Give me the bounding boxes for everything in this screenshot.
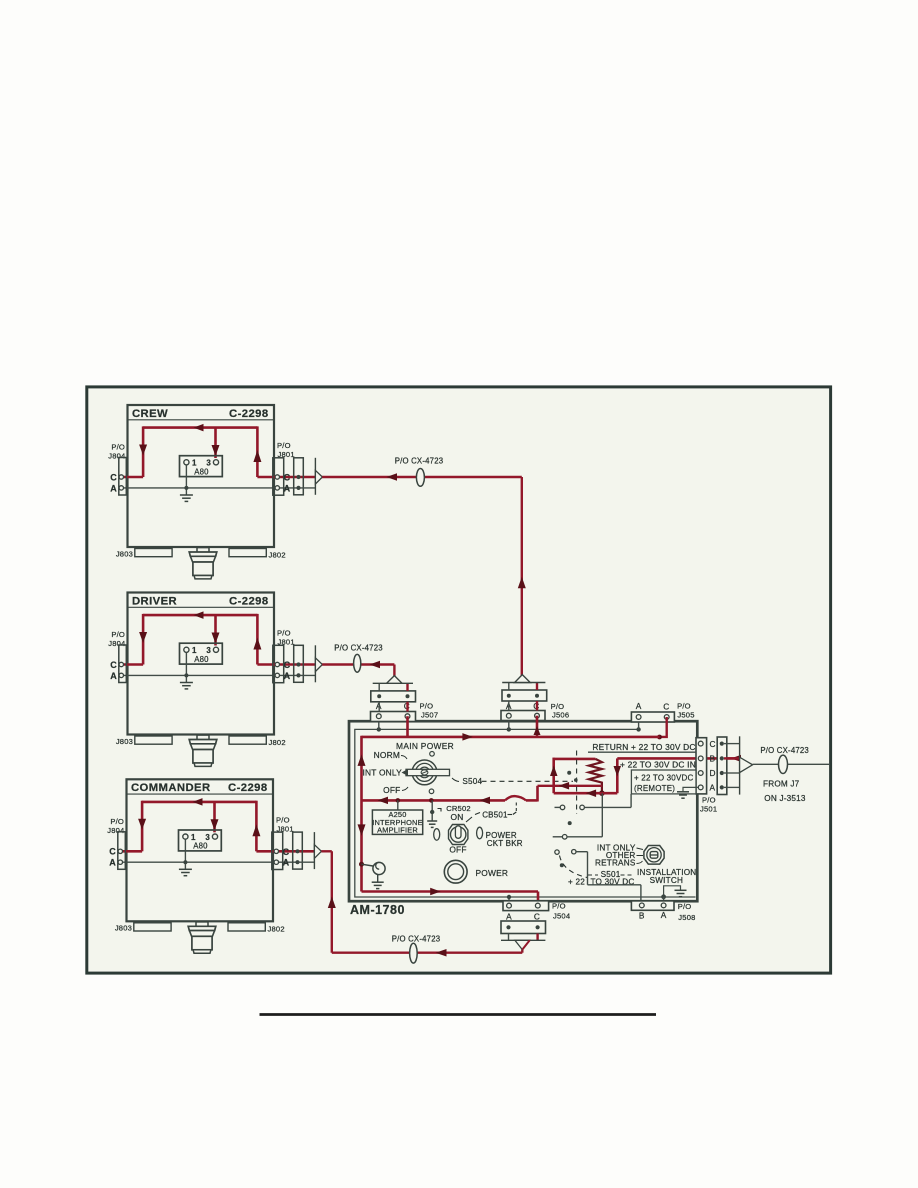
svg-text:J507: J507 — [421, 711, 438, 720]
REMOTE label box — [631, 770, 696, 794]
svg-text:A: A — [284, 483, 291, 493]
svg-text:A: A — [109, 858, 116, 868]
arrow bottom cable leftward — [436, 949, 447, 957]
ground symbol under stub — [427, 821, 437, 827]
connector P/O J504 — [503, 901, 549, 911]
svg-text:OFF: OFF — [449, 844, 466, 854]
junction J505 A end of inner border — [636, 727, 640, 731]
svg-text:J504: J504 — [553, 912, 570, 921]
svg-text:P/O: P/O — [276, 816, 290, 825]
label A at J804 CREW — [110, 483, 117, 493]
arrow CREW left drop down — [139, 445, 147, 456]
wire red riser to relay bottom line — [536, 786, 539, 802]
arrow red top bus rightward — [462, 733, 473, 741]
wire to grommet — [362, 864, 374, 866]
relay coil left leg red — [552, 758, 555, 794]
mating pin A below J504 — [506, 925, 510, 929]
cable triangle below J504 — [515, 940, 530, 949]
svg-text:A: A — [636, 701, 642, 711]
label INT ONLY — [363, 768, 403, 778]
terminal A of J801 COMMANDER — [274, 860, 278, 864]
label C at J801 CREW — [284, 473, 291, 483]
svg-text:A: A — [110, 483, 117, 493]
control box DRIVER C-2298 outline — [128, 593, 275, 735]
contact row 2 — [553, 835, 603, 840]
arrow COMMANDER top run leftward — [193, 798, 203, 806]
cable triangle above J506 — [515, 675, 531, 683]
mounting hole right of CB501 — [477, 827, 483, 839]
wire red mid run left segment — [362, 799, 506, 802]
svg-text:J803: J803 — [116, 549, 133, 558]
wire stub C lower J507 red — [406, 702, 408, 712]
mating pin B J501 — [720, 756, 724, 760]
label A at J505 — [636, 701, 642, 711]
foot J803 of DRIVER — [135, 736, 172, 744]
terminal A of J801 CREW — [275, 486, 279, 490]
arrow CREW cable drop upward — [518, 577, 526, 589]
label P/O J801 of CREW — [277, 441, 295, 459]
mating connector at J801 CREW — [294, 458, 304, 495]
dashed link S504 to relay — [482, 780, 574, 782]
hook mark beside stub — [438, 809, 442, 812]
label A250 — [388, 810, 406, 819]
arrow COMMANDER riser upward — [328, 897, 336, 909]
label C at J804 DRIVER — [110, 660, 117, 670]
wire from J7 external — [753, 763, 829, 765]
red side of J504 triangle — [522, 940, 529, 949]
pin 3 of A80 in COMMANDER — [212, 834, 217, 839]
cable bar below J504 — [501, 939, 545, 941]
arrow DRIVER left drop down — [139, 632, 147, 643]
POWER indicator lamp — [444, 860, 467, 883]
arrow relay B line leftward — [586, 790, 597, 798]
wire stub A lower J506 — [508, 701, 510, 711]
svg-text:CB501: CB501 — [482, 810, 508, 819]
svg-text:+ 22: + 22 — [568, 877, 585, 886]
wire red drop to J504 C — [537, 892, 540, 906]
arrow red bottom run rightward — [430, 888, 441, 895]
junction inner border at J504 A — [507, 895, 511, 899]
svg-text:MAIN POWER: MAIN POWER — [396, 741, 454, 751]
label ON J-3513 — [764, 794, 806, 803]
A80 label in DRIVER — [194, 655, 209, 664]
wire COMMANDER A line — [120, 861, 297, 863]
wire CREW red left drop — [142, 426, 145, 477]
wire J506 A stub to inner border — [508, 721, 510, 730]
audio plug under COMMANDER — [188, 922, 216, 953]
svg-text:C: C — [109, 847, 116, 857]
arrow COMMANDER right riser up — [252, 824, 260, 836]
arrow J506 C stub upward — [534, 726, 541, 735]
junction COMMANDER ground on A line — [183, 860, 187, 864]
arrow DRIVER top run leftward — [194, 611, 204, 619]
svg-text:P/O CX-4723: P/O CX-4723 — [760, 746, 809, 755]
label A at J506 — [506, 701, 512, 711]
connector P/O J505 — [631, 712, 674, 722]
S501 wiper dot — [560, 863, 564, 867]
A80 label in COMMANDER — [193, 842, 208, 851]
pin 1 of A80 in COMMANDER — [183, 834, 188, 839]
label POWER — [476, 868, 509, 878]
label P/O J508 — [678, 902, 696, 922]
fan wire C to bar — [724, 743, 740, 745]
wire COMMANDER C line left — [120, 850, 142, 853]
pin 1 label in CREW — [192, 459, 197, 468]
DRIVER title text — [132, 595, 177, 607]
ground symbol bottom left — [372, 882, 384, 888]
arrow COMMANDER left drop down — [138, 819, 146, 830]
cable bar at J501 — [739, 736, 741, 794]
svg-text:+ 22 TO 30VDC: + 22 TO 30VDC — [634, 774, 693, 783]
svg-text:P/O: P/O — [277, 441, 291, 450]
COMMANDER model number C-2298 — [228, 782, 267, 794]
label P/O J504 — [552, 902, 570, 921]
label ON — [451, 812, 464, 822]
svg-text:P/O: P/O — [678, 902, 692, 911]
terminal A of J506 — [506, 713, 511, 718]
label CR502 — [446, 804, 471, 813]
diagram frame border — [87, 387, 831, 973]
arrow red mid run leftward 1 — [378, 797, 389, 805]
AM-1780 inner border — [355, 729, 696, 897]
svg-text:A: A — [661, 910, 667, 920]
wire CREW C line left — [121, 476, 143, 479]
svg-text:RETRANS: RETRANS — [595, 859, 636, 868]
terminal A of J804 DRIVER — [119, 673, 123, 677]
wire junction drop to contact row 2 — [601, 793, 603, 837]
relay coil winding — [589, 759, 602, 793]
dot inside relay — [567, 771, 571, 775]
ground symbol at J501 A — [677, 792, 689, 798]
junction CR502 ground stub on red run — [429, 798, 434, 803]
svg-text:C-2298: C-2298 — [228, 782, 267, 794]
connector J804 of COMMANDER — [118, 832, 126, 870]
label FROM J7 — [763, 780, 800, 789]
cable bar above J507 — [373, 682, 413, 684]
component A80 terminal box in COMMANDER — [179, 830, 222, 851]
wire J508 A stub — [663, 897, 665, 906]
svg-text:AMPLIFIER: AMPLIFIER — [377, 826, 418, 835]
wire red top bus — [362, 736, 660, 739]
underline RETURN label — [588, 751, 696, 753]
cable bar at DRIVER J801 — [314, 645, 316, 682]
mounting hole left of CB501 — [434, 829, 440, 841]
svg-text:ON J-3513: ON J-3513 — [764, 794, 806, 803]
pin 1 label in COMMANDER — [191, 833, 196, 842]
arrow red left vertical upward — [358, 754, 366, 766]
wire CREW A line — [121, 487, 298, 489]
label C at J501 — [710, 739, 716, 749]
label P/O CX-4723 DRIVER cable — [334, 644, 383, 653]
terminal D of J501 — [698, 771, 703, 776]
mating pin C COMMANDER — [295, 849, 299, 853]
svg-text:RETURN + 22 TO 30V DC: RETURN + 22 TO 30V DC — [592, 742, 695, 752]
label B at J508 — [639, 910, 645, 920]
svg-text:P/O: P/O — [552, 902, 566, 911]
svg-text:P/O: P/O — [110, 817, 124, 826]
wire +22V to J508 B — [588, 885, 641, 906]
svg-text:C: C — [534, 911, 540, 921]
arrow +22V riser downward — [614, 766, 622, 777]
svg-text:J804: J804 — [108, 452, 125, 461]
terminal A of J505 — [636, 715, 641, 720]
svg-text:P/O CX-4723: P/O CX-4723 — [392, 934, 441, 943]
label AMPLIFIER — [377, 826, 418, 835]
S504 position dot OFF — [429, 789, 434, 794]
svg-text:NORM: NORM — [374, 750, 400, 760]
wire red bottom run — [362, 890, 539, 893]
pin 3 of A80 in DRIVER — [213, 647, 218, 652]
mating pin A COMMANDER — [295, 860, 299, 864]
svg-text:B: B — [639, 910, 645, 920]
terminal B of J508 — [639, 903, 644, 908]
audio plug under CREW — [189, 548, 217, 579]
svg-text:A: A — [284, 671, 291, 681]
mating pin A above J507 — [377, 694, 381, 698]
label C at J801 DRIVER — [284, 660, 291, 670]
terminal C of J804 DRIVER — [119, 662, 123, 666]
cable bar above J506 — [502, 682, 545, 684]
mating pin C DRIVER — [296, 662, 300, 666]
arrow DRIVER right riser up — [253, 638, 261, 650]
component A80 terminal box in DRIVER — [180, 643, 223, 664]
wire A to cable bar DRIVER — [299, 674, 316, 676]
label A at J801 COMMANDER — [283, 858, 290, 868]
wire J507 C red stub to bus — [406, 716, 409, 737]
wire J505 A stub to inner border — [638, 722, 640, 729]
svg-text:P/O: P/O — [111, 630, 125, 639]
wire bottom cable CX-4723 run — [332, 952, 523, 954]
svg-text:1: 1 — [192, 459, 197, 468]
label RETRANS at S501 — [595, 859, 643, 868]
wire DRIVER A line — [121, 674, 298, 676]
connector J804 of DRIVER — [119, 645, 127, 683]
wire A to cable bar CREW — [299, 487, 316, 489]
svg-text:P/O CX-4723: P/O CX-4723 — [334, 644, 383, 653]
AM-1780 outer case — [349, 721, 697, 901]
svg-text:P/O: P/O — [677, 701, 691, 710]
svg-text:P/O CX-4723: P/O CX-4723 — [395, 457, 444, 466]
pin 3 label in CREW — [206, 459, 211, 468]
svg-text:A80: A80 — [194, 655, 209, 664]
label S504 with leader — [452, 777, 483, 786]
foot J803 of COMMANDER — [134, 923, 171, 931]
wire A to cable bar COMMANDER — [298, 861, 315, 863]
svg-text:J802: J802 — [269, 738, 286, 747]
wire stub C lower J506 red — [536, 701, 538, 711]
caption rule — [260, 1013, 657, 1016]
junction inner border at J508 A — [661, 894, 666, 899]
label RETURN +22 TO 30V DC — [592, 742, 695, 752]
dash leader CB501 — [466, 813, 480, 823]
wire CREW C line right — [257, 476, 322, 479]
dashed stub to CR502 hump — [513, 803, 517, 815]
terminal A of J501 — [698, 785, 703, 790]
svg-text:ON: ON — [451, 812, 464, 822]
label C at J504 — [534, 911, 540, 921]
svg-text:3: 3 — [206, 459, 211, 468]
terminal A of J507 — [376, 714, 381, 719]
wire CREW cable CX-4723 horizontal — [322, 476, 522, 478]
arrow CREW top run leftward — [194, 424, 204, 432]
terminal C of J801 DRIVER — [275, 662, 279, 666]
wire relay B line — [554, 792, 618, 795]
junction J507 A on inner border — [377, 727, 381, 731]
wire COMMANDER red top run — [142, 801, 256, 804]
terminal C of J504 — [535, 903, 540, 908]
svg-text:B: B — [710, 754, 716, 764]
mating connector above J507 — [371, 691, 416, 702]
wire stub A upper J506 — [508, 683, 510, 691]
wire S501 to down run — [576, 852, 588, 885]
wire J504 A stub to inner border — [508, 897, 510, 901]
wire J506 C red stub to bus — [536, 716, 539, 737]
label P/O CX-4723 CREW cable — [395, 457, 444, 466]
svg-text:+ 22 TO 30V DC IN: + 22 TO 30V DC IN — [620, 759, 696, 769]
svg-text:P/O: P/O — [277, 629, 291, 638]
wire DRIVER red center drop to A80 pin 3 — [214, 615, 217, 645]
terminal C of J801 CREW — [275, 475, 279, 479]
cable triangle above J507 — [387, 676, 402, 684]
svg-text:3: 3 — [206, 646, 211, 655]
label A at J801 DRIVER — [284, 671, 291, 681]
label P/O CX-4723 bottom cable — [392, 934, 441, 943]
cable bar at COMMANDER J801 — [313, 832, 315, 869]
label P/O J501 — [700, 796, 717, 814]
svg-text:POWER: POWER — [476, 868, 509, 878]
svg-text:J505: J505 — [677, 711, 694, 720]
cable marker oval on DRIVER cable — [354, 654, 361, 672]
arrow +22V into B leftward — [731, 755, 741, 762]
fan wire B red to bar — [724, 757, 740, 759]
fan wire D to bar — [724, 772, 740, 774]
wire A250 stub — [397, 800, 399, 810]
arrow relay bottom leftward — [559, 782, 570, 790]
foot J802 of COMMANDER — [228, 923, 265, 931]
svg-text:CKT BKR: CKT BKR — [487, 839, 523, 848]
label C at J505 — [663, 702, 669, 712]
label A at J804 COMMANDER — [109, 858, 116, 868]
terminal C of J804 CREW — [119, 475, 123, 479]
S504 handle bar — [406, 769, 450, 775]
mating connector at J801 DRIVER — [294, 645, 304, 682]
label P/O J801 of COMMANDER — [276, 816, 294, 834]
grommet loop — [373, 862, 385, 874]
mating pin C above J507 — [406, 694, 410, 698]
S504 handle arrowhead — [402, 769, 409, 776]
label +22 TO 30V DC IN — [620, 759, 696, 769]
mating pin A above J506 — [507, 694, 511, 698]
S501 knob — [644, 846, 664, 865]
wire DRIVER pin1 ground drop — [185, 652, 187, 682]
label P/O J804 of DRIVER — [108, 630, 125, 648]
cable marker oval on J7 line — [779, 755, 788, 773]
connector P/O J508 — [631, 901, 674, 910]
S501 dashed arc — [560, 856, 588, 878]
label J802 COMMANDER — [268, 925, 285, 934]
terminal C of J804 COMMANDER — [118, 849, 122, 853]
svg-text:C: C — [110, 472, 117, 482]
svg-text:J804: J804 — [107, 826, 124, 835]
A80 label in CREW — [194, 467, 209, 476]
svg-text:J501: J501 — [700, 804, 717, 813]
terminal A of J508 — [661, 903, 666, 908]
svg-text:1: 1 — [192, 646, 197, 655]
wire J501 A to ground — [683, 787, 698, 791]
mating connector above J506 — [502, 690, 547, 701]
connector J804 of CREW — [119, 458, 127, 496]
mating pin C above J506 — [535, 694, 539, 698]
wire CREW red center drop to A80 pin 3 — [214, 428, 217, 458]
svg-text:J802: J802 — [268, 925, 285, 934]
svg-text:C: C — [663, 702, 669, 712]
label C at J804 CREW — [110, 472, 117, 482]
contact pair below relay — [555, 805, 632, 810]
COMMANDER title text — [131, 782, 211, 794]
wire stub C upper J506 red — [536, 683, 538, 691]
ground symbol in DRIVER — [180, 683, 193, 689]
arrow COMMANDER center drop down — [211, 819, 219, 830]
wire DRIVER cable CX-4723 horizontal — [322, 663, 394, 665]
connector P/O J506 — [501, 711, 545, 721]
mating pin A J501 — [720, 785, 724, 789]
fan wire A to bar — [724, 786, 740, 788]
label J803 CREW — [116, 549, 133, 558]
svg-text:SWITCH: SWITCH — [650, 876, 684, 885]
mating pin A CREW — [296, 486, 300, 490]
svg-text:P/O: P/O — [111, 443, 125, 452]
label OFF — [383, 785, 408, 795]
arrow CREW right riser up — [253, 450, 261, 462]
label J803 COMMANDER — [115, 924, 132, 933]
cable marker oval on CREW cable — [416, 469, 424, 487]
wire +22V DC IN red riser — [616, 758, 619, 793]
label D at J501 — [710, 768, 716, 778]
label P/O J507 — [420, 702, 439, 720]
mating connector below J504 — [501, 921, 546, 934]
svg-text:J803: J803 — [115, 924, 132, 933]
connector J801 of CREW — [273, 458, 284, 495]
control box CREW C-2298 outline — [128, 405, 275, 547]
wire stub A lower J507 — [378, 702, 380, 712]
label REMOTE — [634, 784, 675, 793]
cable marker oval on bottom cable — [410, 943, 418, 963]
terminal A of J504 — [507, 903, 512, 908]
terminal C of J505 — [664, 715, 669, 720]
mating connector at J801 COMMANDER — [293, 832, 303, 869]
terminal A of J801 DRIVER — [275, 673, 279, 677]
svg-text:COMMANDER: COMMANDER — [131, 782, 211, 794]
label S501 with dashes — [588, 870, 634, 879]
wire CREW red top run — [143, 426, 257, 429]
wire stub A upper J507 — [378, 683, 380, 691]
wire DRIVER red left drop — [142, 614, 145, 665]
label +22 TO 30VDC — [634, 774, 693, 783]
wire red left vertical — [360, 736, 363, 892]
arrow DRIVER cable leftward — [370, 661, 381, 668]
connector P/O J507 — [371, 712, 416, 722]
toggle switch CB501 body — [449, 825, 468, 845]
terminal C of J801 COMMANDER — [274, 849, 278, 853]
svg-text:C: C — [283, 847, 290, 857]
svg-text:A: A — [506, 911, 512, 921]
wire red mid run right segment — [526, 799, 538, 802]
label INT ONLY at S501 — [597, 844, 643, 853]
wire stub C upper J507 red — [406, 683, 408, 691]
junction relay coil bottom — [599, 790, 605, 796]
svg-text:D: D — [710, 768, 716, 778]
label P/O J804 of CREW — [108, 443, 125, 461]
